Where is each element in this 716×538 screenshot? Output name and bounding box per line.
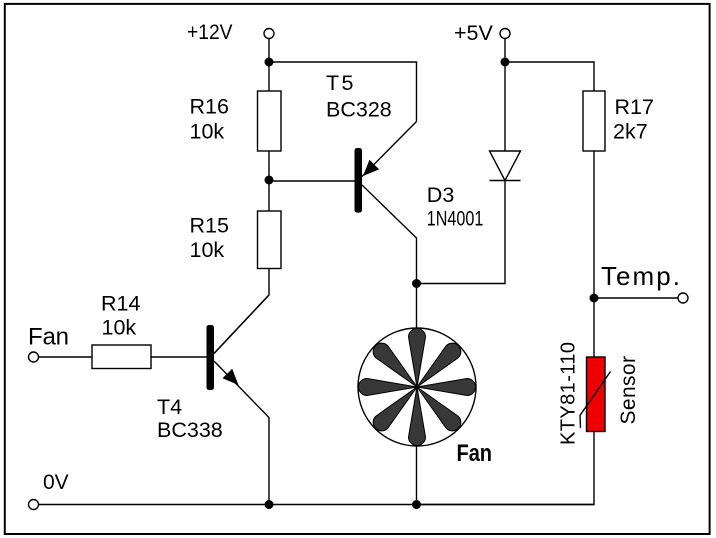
fan blades: [359, 329, 476, 446]
svg-text:10k: 10k: [190, 120, 225, 144]
wire +5V node to D3 anode: [504, 62, 506, 151]
resistor R15: [258, 211, 282, 269]
node junction fan top: [412, 279, 421, 288]
wire node B to R15: [268, 180, 270, 211]
D3 triangle: [490, 151, 521, 181]
terminal Temp: [678, 293, 688, 303]
svg-text:T4: T4: [157, 395, 182, 419]
wire R17 to temp node: [593, 151, 595, 298]
svg-text:0V: 0V: [43, 471, 69, 494]
T4 base bar: [207, 325, 215, 390]
svg-text:KTY81-110: KTY81-110: [558, 342, 580, 445]
wire node B to T5 base: [269, 180, 355, 182]
T5 base bar: [355, 148, 363, 213]
transistor T4 BC338: [207, 295, 270, 505]
node junction R16/R15/T5 base: [265, 176, 274, 185]
wire +5V node to R17: [505, 62, 594, 91]
wire +12V node to T5 emitter column: [269, 62, 417, 122]
wire R16 to node B: [268, 151, 270, 180]
terminal +12V: [264, 29, 274, 39]
terminal +5V: [500, 29, 510, 39]
node junction temp: [590, 294, 599, 303]
T4 emitter wire: [214, 361, 269, 505]
svg-text:1N4001: 1N4001: [427, 207, 484, 231]
svg-text:2k7: 2k7: [613, 120, 648, 144]
terminal 0V: [29, 500, 39, 510]
diode D3 1N4001: [490, 151, 521, 181]
D3 cathode bar: [490, 180, 521, 182]
wire temp node to terminal: [594, 297, 679, 299]
wire sensor to 0V rail: [417, 432, 594, 505]
node junction +12V rail: [265, 58, 274, 67]
svg-text:Temp.: Temp.: [601, 261, 680, 291]
fan wire inside: [416, 328, 418, 446]
T5 collector wire: [362, 185, 417, 284]
svg-text:10k: 10k: [190, 238, 225, 262]
node junction 0V/fan: [412, 500, 421, 509]
fan circle: [358, 328, 476, 446]
resistor R14: [92, 345, 151, 369]
resistor R16: [258, 91, 282, 151]
svg-text:Fan: Fan: [457, 440, 493, 467]
sensor thermistor stroke: [580, 372, 611, 428]
svg-text:10k: 10k: [102, 316, 137, 340]
T5 emitter wire: [362, 122, 417, 177]
wire R14 to T4 base: [151, 356, 207, 358]
svg-text:R16: R16: [190, 95, 229, 119]
T4 emitter arrow (NPN, points out): [223, 369, 239, 385]
wire +5V terminal to node: [504, 38, 506, 62]
svg-text:Sensor: Sensor: [617, 356, 640, 425]
T5 emitter arrow (PNP, points to bar): [363, 160, 379, 176]
wire +12V terminal to node: [268, 38, 270, 62]
fan motor wire through: [416, 284, 418, 506]
svg-text:BC328: BC328: [326, 98, 392, 122]
svg-text:R15: R15: [190, 214, 229, 238]
wire Fan terminal to R14: [38, 356, 92, 358]
wire D3 cathode to fan node: [417, 181, 506, 284]
svg-text:D3: D3: [427, 183, 455, 207]
svg-text:R17: R17: [615, 95, 654, 119]
svg-text:+12V: +12V: [187, 20, 233, 44]
resistor R17: [583, 91, 605, 151]
svg-text:+5V: +5V: [454, 21, 494, 45]
T4 collector wire: [214, 295, 269, 354]
node junction +5V: [501, 58, 510, 67]
node junction 0V/T4 emitter: [265, 500, 274, 509]
wire 0V rail: [38, 504, 594, 506]
sensor KTY81-110 body: [587, 357, 606, 432]
svg-text:BC338: BC338: [157, 418, 223, 442]
svg-text:R14: R14: [101, 292, 140, 316]
terminal Fan: [29, 352, 39, 362]
wire R15 to T4 collector: [214, 269, 269, 354]
svg-text:Fan: Fan: [28, 324, 69, 351]
wire temp node to sensor: [593, 298, 595, 357]
transistor T5 BC328: [355, 122, 417, 284]
wire +12V node to R16: [268, 62, 270, 91]
